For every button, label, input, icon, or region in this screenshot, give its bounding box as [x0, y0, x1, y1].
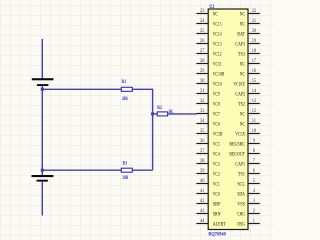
- svg-text:NC: NC: [213, 12, 218, 18]
- pin 25 (VC14) left: [196, 29, 221, 38]
- svg-text:30: 30: [200, 79, 205, 84]
- svg-text:VC12: VC12: [213, 52, 222, 58]
- pin 28 (VC11) left: [196, 59, 221, 68]
- pin 19 (CAP3) right: [235, 39, 259, 48]
- svg-text:VC14: VC14: [213, 32, 222, 38]
- svg-text:17: 17: [252, 59, 257, 64]
- svg-text:BQ76940: BQ76940: [208, 232, 226, 238]
- pin 40 (VC1) left: [196, 179, 220, 188]
- svg-text:16: 16: [252, 69, 257, 74]
- svg-text:22: 22: [252, 9, 257, 14]
- svg-text:20: 20: [252, 29, 257, 34]
- svg-text:SDA: SDA: [237, 192, 245, 198]
- svg-text:21: 21: [252, 19, 257, 24]
- svg-text:VC0: VC0: [213, 192, 220, 198]
- svg-text:37: 37: [200, 149, 205, 154]
- pin 12 (NC) right: [240, 109, 260, 118]
- pin 14 (CAP2) right: [235, 89, 259, 98]
- svg-text:40: 40: [200, 179, 205, 184]
- pin 38 (VC3) left: [196, 159, 220, 168]
- pin 5 (SCL) right: [237, 179, 260, 188]
- pin 30 (VC10) left: [196, 79, 221, 88]
- svg-text:BAT: BAT: [237, 32, 245, 38]
- svg-text:SRP: SRP: [213, 202, 221, 208]
- svg-text:CAP2: CAP2: [235, 92, 245, 98]
- svg-text:43: 43: [200, 209, 205, 214]
- pin 24 (VC15) left: [196, 19, 221, 28]
- svg-text:REGOUT: REGOUT: [229, 152, 245, 158]
- junction at battery / R3 wire: [41, 169, 44, 172]
- pin 44 (ALERT) left: [196, 219, 226, 228]
- pin 27 (VC12) left: [196, 49, 221, 58]
- pin 3 (VSS) right: [237, 199, 260, 208]
- svg-text:R1: R1: [122, 80, 127, 85]
- svg-text:U2: U2: [209, 4, 214, 10]
- pin 26 (VC13) left: [196, 39, 221, 48]
- svg-text:VSS: VSS: [237, 202, 245, 208]
- svg-text:TS1: TS1: [238, 172, 245, 178]
- pin 29 (VC10B) left: [196, 69, 224, 78]
- wire from battery stack to R3: [42, 169, 121, 171]
- junction at battery / R1 wire: [41, 88, 44, 91]
- battery (top cell): [32, 78, 54, 86]
- pin 4 (SDA) right: [237, 189, 260, 198]
- wire rail to R2: [153, 113, 158, 115]
- svg-text:VC5X: VC5X: [235, 132, 245, 138]
- pin 43 (SRN) left: [196, 209, 220, 218]
- svg-text:VC1: VC1: [213, 182, 220, 188]
- svg-text:26: 26: [200, 39, 205, 44]
- pin 41 (VC0) left: [196, 189, 220, 198]
- svg-text:35: 35: [200, 129, 205, 134]
- pin 18 (TS3) right: [238, 49, 260, 58]
- svg-text:36: 36: [200, 139, 205, 144]
- pin 2 (CHG) right: [237, 209, 260, 218]
- resistor R1: [121, 87, 132, 91]
- svg-text:VC10X: VC10X: [233, 82, 245, 88]
- svg-text:VC4: VC4: [213, 152, 220, 158]
- svg-text:VC8: VC8: [213, 102, 220, 108]
- pin 17 (NC) right: [240, 59, 260, 68]
- wire vertical rail (R1 corner to R3 corner): [152, 114, 154, 170]
- pin 10 (VC5X) right: [235, 129, 259, 138]
- svg-text:34: 34: [200, 119, 205, 124]
- svg-text:R2: R2: [157, 106, 162, 111]
- pin 13 (TS2) right: [238, 99, 260, 108]
- battery (bottom cell): [32, 175, 54, 182]
- svg-text:38: 38: [200, 159, 205, 164]
- svg-text:NC: NC: [240, 22, 245, 28]
- svg-text:R3: R3: [123, 161, 128, 166]
- svg-text:SRN: SRN: [213, 212, 221, 218]
- svg-text:14: 14: [252, 89, 257, 94]
- svg-text:CHG: CHG: [237, 212, 245, 218]
- svg-text:ALERT: ALERT: [213, 222, 226, 228]
- svg-text:VC7: VC7: [213, 112, 220, 118]
- svg-text:32: 32: [200, 99, 205, 104]
- pin 31 (VC9) left: [196, 89, 220, 98]
- IC U2 BQ76940 body: [208, 9, 248, 230]
- svg-text:42: 42: [200, 199, 205, 204]
- pin 36 (VC5) left: [196, 139, 220, 148]
- resistor R2: [157, 112, 167, 116]
- svg-text:SCL: SCL: [237, 182, 245, 188]
- svg-text:NC: NC: [240, 72, 245, 78]
- svg-text:VC5B: VC5B: [213, 132, 223, 138]
- junction at rail / R2: [151, 112, 154, 115]
- pin 33 (VC7) left: [196, 109, 220, 118]
- svg-text:NC: NC: [240, 122, 245, 128]
- svg-text:VC3: VC3: [213, 162, 220, 168]
- svg-text:13: 13: [252, 99, 257, 104]
- svg-text:15: 15: [252, 79, 257, 84]
- svg-text:VC15: VC15: [213, 22, 222, 28]
- svg-text:NC: NC: [240, 112, 245, 118]
- pin 1 (DSG) right: [237, 219, 260, 228]
- svg-text:VC2: VC2: [213, 172, 220, 178]
- svg-text:19: 19: [252, 39, 257, 44]
- wire bottom lead of battery stack: [41, 182, 43, 216]
- pin 16 (NC) right: [240, 69, 260, 78]
- wire between battery cells: [41, 86, 43, 175]
- wire top lead of battery stack: [41, 39, 43, 78]
- svg-text:33: 33: [200, 109, 205, 114]
- svg-text:TS3: TS3: [238, 52, 245, 58]
- svg-text:44: 44: [200, 219, 205, 224]
- svg-text:VC10: VC10: [213, 82, 222, 88]
- svg-text:12: 12: [252, 109, 257, 114]
- svg-text:VC11: VC11: [213, 62, 222, 68]
- svg-text:NC: NC: [240, 62, 245, 68]
- pin 15 (VC10X) right: [233, 79, 259, 88]
- pin 11 (NC) right: [240, 119, 260, 128]
- svg-text:VC13: VC13: [213, 42, 222, 48]
- svg-text:10: 10: [252, 129, 257, 134]
- svg-text:REGSRC: REGSRC: [229, 142, 245, 148]
- wire from battery stack to R1: [42, 88, 121, 90]
- svg-text:18: 18: [252, 49, 257, 54]
- pin 8 (REGOUT) right: [229, 149, 259, 158]
- pin 42 (SRP) left: [196, 199, 220, 208]
- wire from R2 to pin 33 (VC7): [168, 113, 197, 115]
- svg-text:VC6: VC6: [213, 122, 220, 128]
- pin 9 (REGSRC) right: [229, 139, 259, 148]
- svg-text:CAP1: CAP1: [235, 162, 245, 168]
- pin 35 (VC5B) left: [196, 129, 222, 138]
- pin 6 (TS1) right: [238, 169, 260, 178]
- svg-text:28: 28: [200, 59, 205, 64]
- resistor R3: [121, 168, 132, 172]
- svg-text:23: 23: [200, 9, 205, 14]
- pin 39 (VC2) left: [196, 169, 220, 178]
- pin 21 (NC) right: [240, 19, 260, 28]
- svg-text:NC: NC: [240, 12, 245, 18]
- svg-text:VC9: VC9: [213, 92, 220, 98]
- pin 7 (CAP1) right: [235, 159, 259, 168]
- pin 20 (BAT) right: [237, 29, 260, 38]
- svg-text:TS2: TS2: [238, 102, 245, 108]
- svg-text:24: 24: [200, 19, 205, 24]
- svg-text:CAP3: CAP3: [235, 42, 245, 48]
- svg-text:VC5: VC5: [213, 142, 220, 148]
- wire from R1 to vertical rail: [132, 89, 152, 114]
- svg-text:20R: 20R: [122, 97, 128, 102]
- svg-text:29: 29: [200, 69, 205, 74]
- svg-text:25: 25: [200, 29, 205, 34]
- pin 32 (VC8) left: [196, 99, 220, 108]
- svg-text:DSG: DSG: [237, 222, 245, 228]
- pin 37 (VC4) left: [196, 149, 220, 158]
- wire from R3 to vertical rail: [132, 169, 152, 171]
- pin 34 (VC6) left: [196, 119, 220, 128]
- svg-text:41: 41: [200, 189, 205, 194]
- svg-text:39: 39: [200, 169, 205, 174]
- svg-text:31: 31: [200, 89, 205, 94]
- svg-text:20R: 20R: [123, 176, 129, 181]
- svg-text:VC10B: VC10B: [213, 72, 225, 78]
- svg-text:11: 11: [252, 119, 257, 124]
- svg-text:27: 27: [200, 49, 205, 54]
- pin 22 (NC) right: [240, 9, 260, 18]
- pin 23 (NC) left: [196, 9, 218, 18]
